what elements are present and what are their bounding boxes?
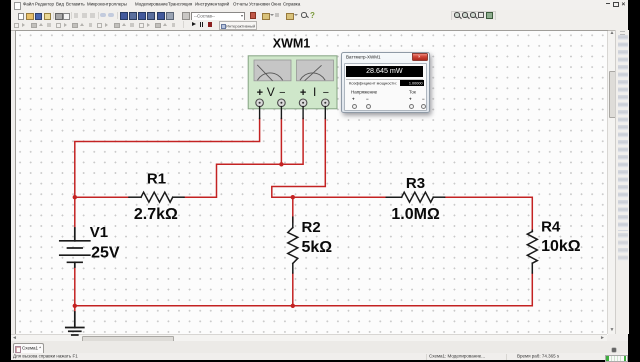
wire net I- : to R2.top / R3.left (272, 119, 387, 223)
svg-text:V: V (267, 85, 275, 99)
svg-text:R4: R4 (541, 219, 561, 236)
svg-text:2.7kΩ: 2.7kΩ (134, 206, 178, 223)
svg-text:5kΩ: 5kΩ (302, 239, 333, 256)
wire bottom ground rail (75, 267, 533, 312)
zoom icon group (451, 11, 496, 22)
svg-text:10kΩ: 10kΩ (541, 238, 581, 255)
pin 2 V- (278, 99, 286, 107)
pin 1 V+ (256, 99, 264, 107)
vertical scrollbar (607, 31, 616, 334)
svg-text:R1: R1 (147, 171, 166, 188)
wire net R3.right to R4.top (445, 197, 533, 230)
node junction R2.bottom (291, 304, 295, 308)
status bar (11, 353, 628, 360)
svg-text:−: − (279, 87, 285, 99)
resistor R1 (129, 192, 184, 202)
wattmeter dialog window (341, 52, 430, 113)
svg-text:1.0MΩ: 1.0MΩ (391, 206, 440, 223)
instruments toolbar (615, 30, 629, 334)
wire net V+ : wattmeter V+ to V1+ / R1.left (75, 119, 260, 229)
svg-text:R3: R3 (406, 175, 425, 192)
node junction V1+/R1.left (73, 195, 77, 199)
toolbar row 1 (11, 10, 628, 20)
svg-text:+: + (257, 87, 263, 99)
wire net V-/I+ : R1.right riser (184, 119, 303, 198)
pin 4 I- (322, 99, 330, 107)
node junction V1-/ground (73, 304, 77, 308)
svg-text:R2: R2 (302, 219, 321, 236)
tab bar (11, 341, 628, 354)
svg-text:+: + (300, 87, 306, 99)
resistor R4 (527, 230, 537, 273)
battery V1 (60, 228, 90, 267)
ground (66, 312, 84, 335)
svg-text:25V: 25V (91, 245, 120, 262)
wattmeter XWM1 body (248, 56, 337, 119)
node junction V-/I+ (279, 162, 283, 166)
resistor R3 (386, 192, 444, 202)
wattmeter pin stubs (260, 107, 326, 119)
toolbar row 2 (11, 20, 628, 31)
resistor R2 (288, 217, 298, 273)
horizontal scrollbar (11, 334, 607, 342)
canvas (15, 30, 608, 335)
svg-text:V1: V1 (90, 224, 108, 241)
pin 3 I+ (299, 99, 307, 107)
svg-text:−: − (323, 87, 329, 99)
node junction R2.top (291, 195, 295, 199)
menu bar (11, 0, 628, 10)
svg-text:XWM1: XWM1 (273, 37, 311, 51)
svg-text:I: I (313, 85, 316, 99)
